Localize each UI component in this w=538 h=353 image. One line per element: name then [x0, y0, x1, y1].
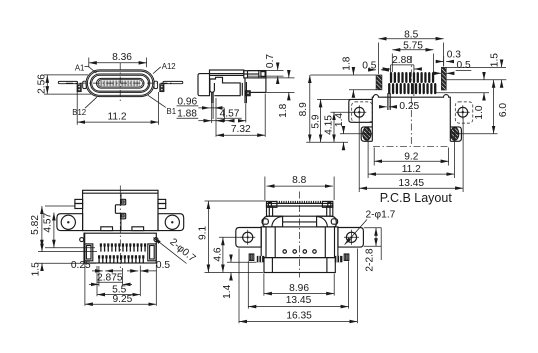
- dimension 5.5: [97, 266, 140, 297]
- strip left end block: [267, 201, 277, 207]
- left slot oval (hatched): [363, 127, 371, 140]
- dimension 0.5 left pad: [362, 61, 389, 72]
- svg-text:0.5: 0.5: [156, 260, 170, 271]
- svg-text:0.25: 0.25: [71, 260, 91, 271]
- right leg verticals: [241, 83, 243, 96]
- footprint central outline with shield-leg notches: [372, 95, 450, 142]
- right bracket: [148, 244, 156, 261]
- left ear circle: [61, 215, 75, 229]
- left through pin below leg: [211, 92, 213, 103]
- center latch zigzag: [120, 193, 122, 199]
- view: connector rear view: [57, 186, 184, 269]
- label A12 with leader: [153, 62, 176, 74]
- right through pin: [244, 78, 246, 103]
- dimension 1.5 (rear): [30, 244, 97, 276]
- dimension 0.5 right pad: [434, 60, 471, 73]
- hole circle right (phi 0.7): [154, 238, 158, 242]
- shell ring 2: [87, 71, 152, 95]
- right slot boss: [450, 127, 461, 141]
- left mounting ear: [57, 214, 83, 231]
- left through pin wire: [58, 81, 77, 83]
- svg-text:7.32: 7.32: [231, 124, 251, 135]
- dimension 9.1: [198, 201, 266, 273]
- dimension 0.25 (rear): [71, 260, 122, 271]
- svg-text:8.36: 8.36: [112, 52, 132, 63]
- dimension 4.57 (rear): [42, 212, 54, 247]
- svg-text:6.0: 6.0: [498, 103, 509, 117]
- dimension 0.25 (pcb): [380, 101, 420, 112]
- svg-text:8.9: 8.9: [298, 102, 309, 116]
- rear block: [198, 74, 210, 96]
- pin row 2 pads: [98, 255, 144, 263]
- dimension 5.75: [392, 41, 433, 73]
- dimension 13.45 (pcb): [359, 118, 463, 193]
- svg-text:2.875: 2.875: [97, 272, 123, 283]
- dimension 5.82: [30, 206, 95, 248]
- left shield pad (hatched): [376, 75, 382, 90]
- vertical centerline: [119, 63, 121, 104]
- svg-text:16.35: 16.35: [286, 310, 312, 321]
- dimension 8.8: [265, 175, 334, 200]
- front leg with rounded bottom: [210, 79, 215, 92]
- svg-text:0.7: 0.7: [265, 54, 276, 68]
- svg-text:1.8: 1.8: [278, 103, 289, 117]
- right courtyard (dashed): [455, 102, 473, 123]
- left bracket: [85, 244, 93, 261]
- pin row 1 pads: [100, 243, 146, 251]
- shell ring 4: [92, 75, 149, 91]
- left pad block: [349, 99, 373, 122]
- svg-text:0.3: 0.3: [447, 50, 461, 61]
- dimension 5.9: [310, 99, 351, 142]
- shell bottom between wings: [283, 221, 317, 223]
- signal pads row 1: [390, 72, 434, 83]
- svg-text:4.57: 4.57: [42, 212, 53, 232]
- right shield pad (hatched): [441, 67, 446, 90]
- view: connector side view: [198, 70, 266, 103]
- shared bottom extension line: [306, 141, 348, 143]
- svg-text:8.8: 8.8: [292, 175, 306, 186]
- label 2-phi1.7 with leader: [345, 210, 396, 245]
- dimension 9.25: [85, 233, 156, 306]
- dimension 2.88: [384, 55, 422, 96]
- dimension 1.4 (pcb): [306, 113, 348, 150]
- svg-text:11.2: 11.2: [402, 164, 421, 175]
- shell ring 3: [90, 74, 149, 92]
- svg-text:1.4: 1.4: [334, 113, 345, 127]
- right slot oval (hatched): [451, 127, 459, 140]
- left side latch bump: [83, 81, 87, 88]
- dimension 4.15: [324, 112, 355, 142]
- svg-text:A1: A1: [75, 64, 85, 73]
- mounting plane line: [250, 91, 266, 93]
- svg-text:2-2.8: 2-2.8: [364, 248, 375, 272]
- dimension 8.96: [264, 274, 334, 296]
- svg-text:2.56: 2.56: [37, 74, 48, 94]
- svg-text:9.25: 9.25: [112, 294, 132, 305]
- svg-text:0.5: 0.5: [457, 60, 471, 71]
- right shield block: [244, 71, 266, 78]
- dimension 1.8 left pad height: [341, 56, 376, 97]
- dimension 9.2: [374, 148, 448, 166]
- mid body: [261, 227, 338, 258]
- svg-text:9.2: 9.2: [404, 152, 418, 163]
- svg-text:4.57: 4.57: [220, 108, 240, 119]
- vertical centerline: [119, 186, 121, 269]
- front foot: [246, 91, 250, 96]
- left wing: [263, 216, 283, 227]
- dimension 1.88: [177, 108, 235, 120]
- emi spring teeth: [277, 201, 320, 204]
- dimension 16.35: [239, 249, 357, 324]
- right mounting ear: [158, 214, 184, 231]
- emi spring strip bar: [267, 203, 333, 206]
- dimension 0.96: [177, 96, 225, 108]
- svg-text:1.0: 1.0: [474, 105, 485, 119]
- base plate: [264, 258, 335, 273]
- left comb foot: [257, 256, 265, 262]
- svg-text:9.1: 9.1: [198, 225, 209, 239]
- dimension 8.5: [379, 29, 444, 74]
- dimension 0.7: [248, 54, 284, 84]
- left side tab: [262, 219, 268, 224]
- shell outer stadium: [86, 70, 154, 97]
- tongue outline: [97, 78, 145, 88]
- label 2-phi0.7 with leader: [153, 237, 197, 265]
- dimension 8.9: [298, 75, 376, 142]
- right side latch bump: [154, 81, 158, 88]
- dimension 2.56: [37, 74, 91, 94]
- dimension 4.57: [216, 108, 246, 120]
- svg-text:1.4: 1.4: [222, 284, 233, 298]
- dimension 8.36: [89, 52, 147, 67]
- left top tab: [75, 199, 83, 203]
- right side pin body: [160, 84, 164, 92]
- strip right end block: [322, 201, 332, 207]
- svg-text:B12: B12: [72, 108, 86, 117]
- view: P.C.B layout footprint: [340, 56, 498, 146]
- tongue inner outline: [98, 80, 143, 87]
- svg-text:1.8: 1.8: [341, 56, 352, 70]
- left mounting hole circle: [354, 107, 364, 117]
- left courtyard (dashed): [352, 102, 373, 122]
- right wing: [317, 216, 337, 227]
- dimension 2.875: [89, 266, 132, 286]
- label A1 with leader: [75, 64, 97, 74]
- dimension 1.4 (front): [222, 255, 257, 299]
- shell band: [267, 206, 333, 216]
- dimension 7.32: [212, 94, 266, 137]
- dimension 2-2.8: [364, 228, 382, 272]
- svg-text:8.96: 8.96: [289, 283, 309, 294]
- 0.25 trace stub: [387, 93, 389, 110]
- pin block outline: [84, 233, 156, 263]
- svg-text:5.82: 5.82: [30, 215, 41, 235]
- body step profile: [210, 77, 241, 95]
- body top inner line: [83, 192, 158, 194]
- right comb foot: [335, 256, 343, 262]
- left side pin body: [77, 84, 81, 92]
- right block right edge: [265, 78, 267, 93]
- label B12 with leader: [72, 97, 97, 117]
- dimension 1.0: [435, 73, 489, 120]
- svg-text:13.45: 13.45: [286, 295, 312, 306]
- right mounting hole circle: [458, 107, 468, 117]
- right standoff foot: [132, 227, 144, 231]
- right top tab: [158, 199, 166, 203]
- svg-text:11.2: 11.2: [107, 111, 126, 122]
- right ear circle (front): [346, 232, 356, 242]
- svg-text:13.45: 13.45: [399, 178, 425, 189]
- dimension 0.5 (rear): [127, 260, 170, 271]
- svg-text:4.6: 4.6: [213, 247, 224, 261]
- svg-text:A12: A12: [162, 62, 176, 71]
- vertical centerline: [410, 56, 412, 146]
- dimension 0.3: [436, 50, 461, 67]
- hole circle left (phi 0.7): [80, 238, 84, 242]
- dimension 6.0: [494, 80, 509, 134]
- svg-text:P.C.B Layout: P.C.B Layout: [380, 191, 453, 205]
- left standoff foot: [101, 227, 113, 231]
- right mounting ear (front): [338, 228, 363, 248]
- right block notch: [261, 72, 265, 77]
- svg-text:2.88: 2.88: [392, 55, 412, 66]
- tongue contact pins hatch: [100, 80, 139, 86]
- dimension 11.2: [77, 92, 158, 125]
- vertical centerline: [299, 192, 301, 278]
- svg-text:1.5: 1.5: [30, 262, 41, 276]
- svg-text:2-φ1.7: 2-φ1.7: [365, 210, 395, 221]
- svg-text:5.9: 5.9: [310, 114, 321, 128]
- svg-text:4.15: 4.15: [324, 115, 335, 135]
- dimension 11.2 (pcb): [368, 127, 454, 179]
- left ear circle (front): [243, 232, 253, 242]
- main body: [83, 190, 158, 230]
- board edge dash-dot line: [373, 145, 448, 147]
- dimension 4.6: [213, 237, 242, 272]
- top shield bar: [210, 70, 244, 74]
- right ear circle: [165, 215, 179, 229]
- svg-text:0.25: 0.25: [399, 101, 419, 112]
- svg-text:1.88: 1.88: [177, 108, 197, 119]
- left ear tab: [249, 254, 254, 260]
- view: connector front view: [236, 192, 364, 278]
- right through pin wire: [163, 81, 183, 83]
- svg-text:B1: B1: [167, 107, 177, 116]
- left slot boss: [361, 127, 372, 141]
- right ear tab: [344, 254, 349, 260]
- dimension 1.5 right pad: [446, 53, 506, 88]
- right side tab: [331, 219, 337, 224]
- horizontal centerline: [66, 82, 174, 84]
- label B1 with leader: [148, 95, 176, 116]
- dimension 1.8 (side view): [252, 71, 295, 118]
- signal pads row 2: [388, 83, 436, 94]
- slot centerline segments: [340, 133, 372, 135]
- svg-text:1.5: 1.5: [489, 53, 500, 67]
- body holes: [283, 250, 287, 254]
- top bar lower line: [210, 74, 244, 76]
- dimension 13.45 (front): [248, 261, 348, 308]
- left mounting ear (front): [236, 228, 261, 248]
- view: connector top view (stadium shell): [58, 63, 183, 104]
